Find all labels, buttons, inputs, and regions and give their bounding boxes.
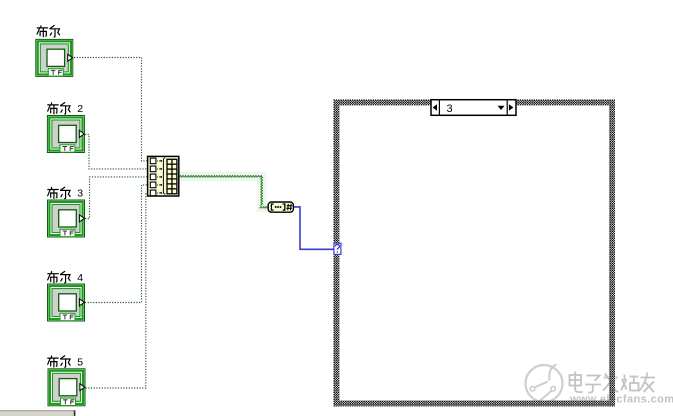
boolean control 3 label	[48, 187, 84, 200]
boolean control 4	[47, 284, 85, 322]
boolean control 5 label	[48, 356, 84, 369]
build array node	[148, 156, 179, 196]
boolean control 1 label	[37, 26, 60, 37]
case structure border right	[609, 100, 615, 407]
case selector terminal ?	[334, 243, 341, 254]
wire boolean3 to build array	[85, 177, 147, 219]
case structure border left	[334, 100, 340, 407]
boolean array to number converter node	[268, 202, 293, 212]
case structure border bottom	[334, 401, 616, 407]
boolean control 2	[47, 115, 85, 153]
boolean control 3	[47, 200, 85, 238]
wire boolean2 to build array	[85, 135, 147, 169]
svg-text:2: 2	[77, 103, 83, 115]
case selector label box	[431, 100, 516, 116]
svg-text:5: 5	[77, 356, 83, 368]
wire boolean4 to build array	[85, 185, 147, 303]
case structure border top	[334, 100, 616, 106]
bottom left gray panel edge	[0, 410, 75, 416]
wire boolean array from build array to converter	[179, 176, 268, 207]
boolean control 1	[35, 39, 73, 77]
wire blue numeric to case selector	[294, 207, 334, 249]
watermark logo circle	[526, 365, 563, 403]
boolean control 2 label	[48, 103, 84, 116]
wire boolean5 to build array	[86, 193, 148, 388]
boolean control 4 label	[48, 271, 84, 284]
svg-text:4: 4	[77, 272, 83, 284]
svg-text:3: 3	[447, 103, 453, 115]
boolean control 5	[48, 368, 86, 406]
watermark text 电子发烧友	[570, 372, 656, 393]
svg-text:3: 3	[77, 188, 83, 200]
wire boolean1 to build array	[74, 58, 147, 161]
